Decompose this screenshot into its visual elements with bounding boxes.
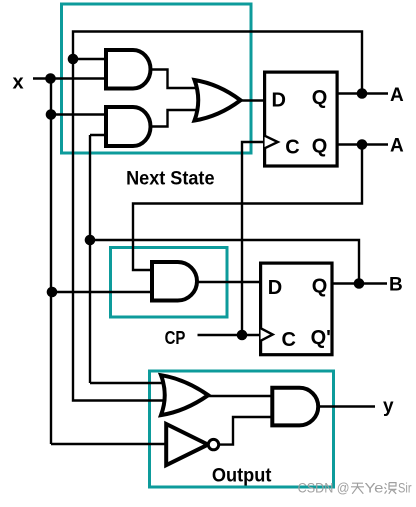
- svg-text:CP: CP: [165, 328, 186, 348]
- wire NOT output to AND5: [219, 417, 274, 445]
- svg-text:Q: Q: [312, 136, 328, 158]
- watermark glyph tian: [351, 483, 364, 494]
- svg-text:A: A: [390, 135, 404, 156]
- junction dot x AND2: [46, 109, 57, 120]
- output teal box: [150, 371, 334, 487]
- junction dot B column: [85, 235, 96, 246]
- wire OR1 output to FF1 D: [239, 99, 266, 101]
- wire AND2 output to OR1: [151, 110, 206, 127]
- svg-text:Sir: Sir: [398, 480, 412, 495]
- svg-text:B: B: [389, 275, 403, 296]
- svg-text:Next State: Next State: [126, 168, 214, 189]
- wire FF1 Q to A: [337, 92, 388, 94]
- wire clock riser to FF1 C: [242, 142, 266, 335]
- svg-text:Q: Q: [312, 87, 328, 109]
- svg-text:D: D: [272, 89, 286, 111]
- svg-text:y: y: [383, 396, 394, 417]
- wire FF1 Qbar to A: [337, 143, 388, 145]
- flip-flop FF1 box: [265, 72, 338, 166]
- wire AND5 output to y: [318, 405, 375, 407]
- wire AND3 output to FF2 D: [196, 281, 262, 283]
- wire CP input: [198, 334, 263, 336]
- wire B feedback column: [89, 135, 91, 383]
- svg-text:Q: Q: [312, 276, 328, 298]
- wire x to NOT input: [51, 443, 170, 445]
- junction dot x AND1: [45, 73, 56, 84]
- wire A to AND1 top input: [73, 58, 108, 60]
- OR gate 1: [195, 80, 241, 121]
- AND gate 5: [272, 388, 318, 426]
- flip-flop FF1 clock triangle: [265, 136, 278, 149]
- junction dot Q A: [357, 88, 368, 99]
- svg-text:Output: Output: [212, 466, 272, 487]
- NOT gate triangle: [166, 424, 208, 465]
- svg-text:Ye: Ye: [365, 480, 384, 495]
- AND gate 1: [106, 50, 151, 89]
- wire AND1 output to OR1: [151, 70, 206, 89]
- svg-text:A: A: [390, 85, 404, 106]
- junction dot Qbar A: [357, 139, 368, 150]
- flip-flop FF2 box: [261, 263, 332, 355]
- junction dot A AND1: [68, 54, 79, 65]
- wire x to AND2 top input: [51, 113, 108, 115]
- wire B to AND2 bottom input: [90, 134, 108, 136]
- junction dot CP: [237, 330, 248, 341]
- wire FF2 Q to B: [332, 282, 387, 284]
- watermark glyph lang: [384, 483, 396, 494]
- svg-text:CSDN @: CSDN @: [298, 480, 350, 495]
- svg-text:Q': Q': [311, 327, 331, 349]
- wire x input: [33, 77, 108, 79]
- junction dot Q B: [354, 278, 365, 289]
- wire FF2 Q up to B column: [90, 240, 359, 284]
- wire Abar feedback to AND3 top input: [133, 145, 362, 271]
- wire A feedback: top run down to OR4 bottom input: [73, 32, 362, 401]
- svg-text:C: C: [285, 137, 299, 159]
- wire x bus column: [50, 79, 52, 445]
- AND gate 2: [106, 107, 151, 146]
- wire OR4 output to AND5: [207, 395, 274, 397]
- flip-flop FF2 clock triangle: [261, 328, 273, 341]
- middle teal box: [111, 248, 228, 318]
- junction dot x AND3: [47, 287, 58, 298]
- svg-text:D: D: [268, 277, 282, 299]
- svg-text:C: C: [282, 329, 296, 351]
- svg-text:x: x: [13, 71, 24, 93]
- wire x to AND3 bottom input: [51, 291, 156, 293]
- AND gate 3: [152, 262, 197, 301]
- wire B to OR4 top input: [90, 382, 177, 384]
- OR gate 4: [161, 375, 208, 415]
- next-state teal box: [62, 4, 252, 153]
- NOT gate bubble: [208, 439, 218, 449]
